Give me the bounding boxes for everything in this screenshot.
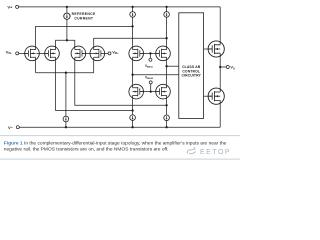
wire Q5 Q6 gate bias line <box>140 52 160 54</box>
wire I4 to cascode Q6 drain <box>166 17 168 46</box>
output transistor Q9 <box>208 41 224 58</box>
wire left column to class AB box <box>133 74 179 76</box>
svg-text:negative rail, the PMOS transi: negative rail, the PMOS transistors are … <box>4 147 169 153</box>
cascode transistor Q6 <box>156 46 171 61</box>
wire class AB box to Q10 gate <box>204 95 213 97</box>
wire Q4 gate to VIN+ terminal <box>104 52 108 54</box>
wire Q6 source down right column <box>166 61 168 84</box>
reference current source I1 <box>64 13 70 19</box>
wire class AB box to Q9 gate <box>204 48 213 50</box>
svg-text:CIRCUITRY: CIRCUITRY <box>181 74 201 78</box>
wire Q4 source to NMOS tail line <box>93 61 95 73</box>
transistor Q1 (NMOS input pair) <box>25 46 40 61</box>
svg-text:VIN+: VIN+ <box>112 49 119 55</box>
node dot VBIAS2 <box>150 90 152 92</box>
wire right column to class AB box <box>167 65 179 67</box>
EETOP watermark logo <box>187 148 196 154</box>
node dot V+ rail right current source <box>165 6 167 8</box>
transistor Q2 (PMOS input pair) <box>45 46 60 61</box>
svg-text:VBIAS1: VBIAS1 <box>145 64 154 69</box>
node dot output <box>219 66 221 68</box>
wire Q10 source to V- rail <box>219 105 221 128</box>
caption bottom rule <box>0 158 240 161</box>
caption top rule <box>0 134 240 137</box>
transistor Q4 (NMOS input pair, mirrored) <box>90 46 105 61</box>
V+ terminal <box>16 5 19 8</box>
wire rail to current source I2 <box>132 7 134 12</box>
node dot VBIAS1 <box>149 52 151 54</box>
mirror transistor Q7 (mirrored) <box>129 84 144 99</box>
wire tail current source to V- rail <box>65 122 67 128</box>
node dot V- rail left <box>131 126 133 128</box>
VIN- input terminal <box>16 52 19 55</box>
svg-text:CLASS AB: CLASS AB <box>182 65 201 69</box>
transistor Q3 (PMOS input pair, mirrored) <box>71 46 86 61</box>
wire reference current to PMOS pair tail <box>66 19 68 40</box>
current source I6 <box>164 115 170 121</box>
svg-text:CURRENT: CURRENT <box>74 16 94 20</box>
svg-text:EETOP: EETOP <box>200 149 231 156</box>
V- terminal <box>16 126 19 129</box>
wire I3 to V- rail <box>132 120 134 127</box>
node dot V+ rail left current source <box>131 6 133 8</box>
svg-text:V+: V+ <box>7 5 13 10</box>
node dot lower left column <box>131 109 133 111</box>
wire rail to current source I4 <box>166 7 168 12</box>
wire output node down to Q10 drain <box>219 67 221 88</box>
wire VIN- to Q1 gate <box>19 52 29 54</box>
current source I2 <box>130 12 136 18</box>
wire Q1 drain to summing node A <box>36 26 133 46</box>
V+ supply rail wire <box>19 6 221 8</box>
wire Q5 source down left column <box>132 61 134 84</box>
node dot PMOS tail <box>66 39 68 41</box>
svg-text:VIN−: VIN− <box>6 49 13 55</box>
svg-text:VBIAS2: VBIAS2 <box>145 76 154 81</box>
cascode transistor Q5 (mirrored) <box>129 46 144 61</box>
current source I3 <box>130 115 136 121</box>
wire Q1 gate bus to Q2 gate <box>36 52 48 54</box>
V- supply rail wire <box>19 126 220 128</box>
VBIAS2 terminal <box>149 81 152 84</box>
mirror transistor Q8 <box>156 84 171 99</box>
node dot on V- rail below tail source <box>65 126 67 128</box>
node dot A on left cascode column <box>131 25 133 27</box>
svg-text:VO: VO <box>230 65 235 71</box>
current source I4 <box>164 12 170 18</box>
wire I6 to V- rail <box>166 121 168 128</box>
wire Q3 gate bus to Q4 gate <box>82 52 94 54</box>
wire Q7 Q8 gate bias line <box>140 91 160 93</box>
VBIAS1 terminal <box>149 58 152 61</box>
wire NMOS tail to tail current source <box>65 73 67 117</box>
node dot lower right column <box>165 104 167 106</box>
wire I2 to cascode Q5 drain <box>132 17 134 46</box>
VIN+ input terminal <box>108 52 111 55</box>
wire Q2 drain to lower left node <box>56 61 133 111</box>
tail current source I5 <box>63 116 69 122</box>
wire Q1 source to NMOS tail line <box>35 61 37 73</box>
svg-text:CONTROL: CONTROL <box>182 69 200 73</box>
wire Q4 drain to summing node B <box>94 38 167 46</box>
wire VBIAS1 stub <box>149 53 151 58</box>
wire V+ rail to reference current source <box>66 7 68 13</box>
wire V+ rail down to Q9 drain <box>219 7 221 41</box>
NMOS pair tail wire <box>36 72 94 74</box>
wire Q9 source to output node <box>219 57 221 67</box>
node dot NMOS tail <box>65 72 67 74</box>
wire output node to VO terminal <box>220 66 226 68</box>
node dot B on right cascode column <box>165 37 167 39</box>
wire VBIAS2 stub <box>150 84 152 92</box>
class AB control circuitry box <box>179 13 204 119</box>
wire tail bar to Q2 and Q3 sources <box>56 40 75 46</box>
node dot V- rail right <box>165 126 167 128</box>
svg-text:V−: V− <box>8 125 14 130</box>
node dot on V+ rail at reference branch <box>66 6 68 8</box>
output transistor Q10 <box>208 88 224 105</box>
wire Q7 source to lower node and current source I3 <box>132 99 134 115</box>
wire Q8 source to lower node and current source I6 <box>166 99 168 115</box>
svg-text:Figure 1 In the complementary-: Figure 1 In the complementary-differenti… <box>4 141 227 147</box>
wire Q3 drain to lower right node <box>75 61 167 105</box>
VO terminal <box>226 66 229 69</box>
node dot right column to class AB feed <box>165 65 167 67</box>
node dot left column to class AB feed <box>131 74 133 76</box>
